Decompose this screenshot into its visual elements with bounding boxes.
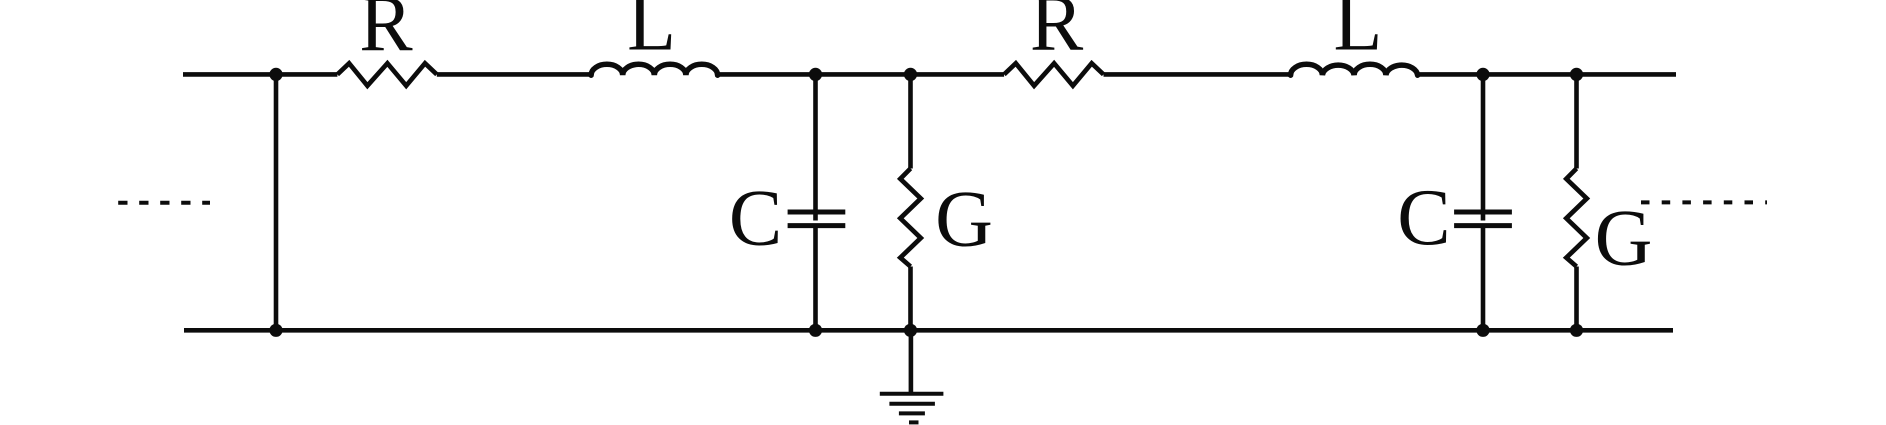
svg-text:C: C [729,174,782,262]
svg-text:G: G [935,175,993,263]
svg-text:G: G [1595,195,1653,283]
svg-text:R: R [359,0,413,68]
svg-text:C: C [1397,174,1450,262]
svg-text:L: L [627,0,676,67]
svg-text:L: L [1333,0,1382,67]
svg-text:R: R [1030,0,1084,67]
